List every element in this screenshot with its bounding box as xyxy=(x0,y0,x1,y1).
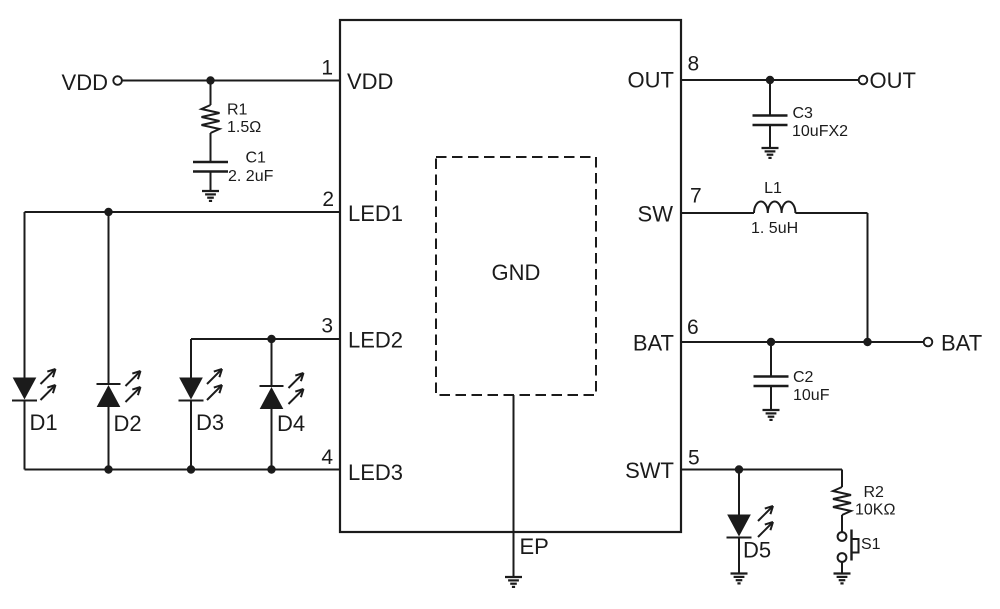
wire VDD terminal to pin 1 xyxy=(122,80,340,82)
svg-text:R2: R2 xyxy=(864,484,885,501)
LED D1 xyxy=(12,369,56,401)
svg-text:BAT: BAT xyxy=(633,331,674,356)
svg-text:LED3: LED3 xyxy=(348,460,403,485)
wire EP to ground xyxy=(513,395,515,577)
wire R1 bottom to C1 top xyxy=(210,133,212,162)
svg-text:VDD: VDD xyxy=(62,70,108,95)
svg-text:4: 4 xyxy=(321,446,333,469)
svg-text:OUT: OUT xyxy=(870,68,916,93)
svg-text:SW: SW xyxy=(638,202,674,227)
svg-text:D4: D4 xyxy=(277,411,305,436)
wire corner down to R2 xyxy=(841,470,843,488)
IC exposed pad GND (dashed box) xyxy=(436,157,596,395)
svg-text:7: 7 xyxy=(690,185,702,208)
junction BAT/C2 node xyxy=(767,338,775,346)
junction LED2/D4 branch xyxy=(267,335,275,343)
ground below C2 xyxy=(763,410,780,420)
junction OUT/C3 node xyxy=(766,76,774,84)
svg-text:6: 6 xyxy=(687,316,699,339)
terminal OUT (output) xyxy=(859,76,868,85)
resistor R2 xyxy=(833,487,851,515)
svg-text:1. 5uH: 1. 5uH xyxy=(751,220,798,237)
ground below D5 xyxy=(731,574,748,584)
LED D2 xyxy=(97,371,141,407)
wire pin 4 LED3 return rail xyxy=(25,469,341,471)
capacitor C3 xyxy=(753,116,788,126)
LED D3 xyxy=(179,369,223,401)
ground below S1 xyxy=(834,574,851,584)
svg-text:2. 2uF: 2. 2uF xyxy=(228,168,274,185)
svg-text:10uFX2: 10uFX2 xyxy=(792,123,848,140)
svg-text:VDD: VDD xyxy=(347,69,393,94)
ground below C1 xyxy=(202,191,219,201)
ground below C3 xyxy=(762,148,779,158)
wire pin 3 LED2 to D3 branch xyxy=(191,338,340,340)
wire node to C2 top xyxy=(770,342,772,377)
ground EP xyxy=(505,577,522,587)
svg-text:C3: C3 xyxy=(793,105,814,122)
svg-text:D1: D1 xyxy=(30,410,58,435)
svg-text:3: 3 xyxy=(321,315,333,338)
wire D5 cathode to ground xyxy=(738,538,740,574)
wire node down to D5 xyxy=(738,470,740,516)
resistor R1 xyxy=(202,105,220,133)
wire D4 cathode branch xyxy=(271,339,273,386)
svg-text:L1: L1 xyxy=(764,180,782,197)
wire C1 bottom to ground xyxy=(210,172,212,192)
wire L1 to corner xyxy=(795,212,867,214)
svg-text:C1: C1 xyxy=(246,150,267,167)
svg-text:LED2: LED2 xyxy=(348,328,403,353)
junction BAT/L1 node xyxy=(863,338,871,346)
svg-text:BAT: BAT xyxy=(941,331,982,356)
wire D3 cathode to LED3 rail xyxy=(190,401,192,470)
svg-text:D3: D3 xyxy=(196,410,224,435)
svg-text:8: 8 xyxy=(688,53,700,76)
LED D5 xyxy=(727,506,774,538)
wire D1 cathode to LED3 rail xyxy=(24,401,26,470)
junction LED3/D3 bottom xyxy=(187,465,195,473)
wire R2 bottom to S1 xyxy=(841,515,843,532)
wire pin 5 to R2 branch xyxy=(681,469,842,471)
wire pin 6 to BAT terminal xyxy=(681,341,924,343)
capacitor C1 xyxy=(193,162,228,172)
junction LED3/D4 bottom xyxy=(267,465,275,473)
wire C3 bottom to ground xyxy=(769,125,771,148)
svg-text:C2: C2 xyxy=(793,369,814,386)
wire pin 7 to L1 xyxy=(681,212,754,214)
svg-text:EP: EP xyxy=(520,534,549,559)
svg-text:SWT: SWT xyxy=(625,458,674,483)
wire C2 bottom to ground xyxy=(770,386,772,410)
wire D3 anode branch xyxy=(190,339,192,378)
svg-text:S1: S1 xyxy=(861,536,881,553)
junction SWT/D5 node xyxy=(735,465,743,473)
svg-text:GND: GND xyxy=(492,260,541,285)
junction LED3/D2 bottom xyxy=(104,465,112,473)
wire node to C3 top xyxy=(769,80,771,116)
switch S1 (push button) xyxy=(838,530,859,562)
wire D2 anode to LED3 rail xyxy=(108,407,110,470)
svg-text:2: 2 xyxy=(322,188,334,211)
junction LED1/D2 branch xyxy=(104,208,112,216)
junction VDD/R1 node xyxy=(206,76,214,84)
wire pin 8 to OUT terminal xyxy=(681,79,859,81)
svg-text:OUT: OUT xyxy=(628,68,674,93)
svg-text:5: 5 xyxy=(688,447,700,470)
wire pin 2 LED1 to left rail xyxy=(25,211,341,213)
wire L1 corner down to BAT node xyxy=(867,213,869,342)
IC U1 body xyxy=(340,20,681,532)
svg-text:1.5Ω: 1.5Ω xyxy=(227,119,261,136)
svg-text:10uF: 10uF xyxy=(793,387,830,404)
svg-text:LED1: LED1 xyxy=(348,201,403,226)
svg-text:D5: D5 xyxy=(743,538,771,563)
svg-text:1: 1 xyxy=(321,57,333,80)
wire node to R1 top xyxy=(210,81,212,106)
wire D2 cathode branch xyxy=(108,212,110,384)
wire D1 anode branch xyxy=(24,212,26,378)
svg-text:10KΩ: 10KΩ xyxy=(855,502,895,519)
wire S1 to ground xyxy=(841,562,843,574)
wire D4 anode to LED3 rail xyxy=(271,409,273,470)
inductor L1 xyxy=(754,202,795,213)
svg-text:D2: D2 xyxy=(114,411,142,436)
terminal BAT (output) xyxy=(924,338,933,347)
svg-text:R1: R1 xyxy=(227,102,248,119)
capacitor C2 xyxy=(754,377,789,387)
LED D4 xyxy=(260,373,304,409)
